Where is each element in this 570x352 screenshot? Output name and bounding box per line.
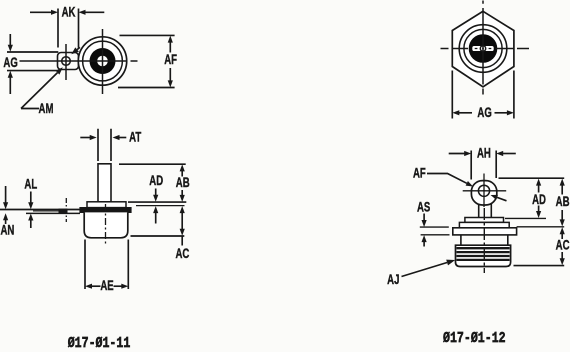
panel line lower (left) [26,212,80,214]
caption 017-01-12 [443,331,506,348]
thread ridges [457,248,510,260]
extension line body bottom right [514,265,565,267]
pointer arrow at ball lower right [491,195,507,201]
svg-text:AF: AF [164,51,177,67]
locknut block on panel [59,209,68,214]
side view threaded stem [98,164,111,202]
dimension AE [85,284,128,289]
panel doubled line segment [33,210,62,212]
svg-text:AE: AE [100,277,113,293]
ball inner circle [478,185,489,196]
svg-text:AT: AT [129,129,142,145]
extension line step A right [505,217,546,219]
vertical centerline of tab hole [65,44,67,80]
extension line ball top right [499,177,565,179]
dimension AB (right view) [560,179,565,227]
dimension AK extension lines [58,9,79,48]
leader AM [21,67,63,108]
hex horizontal centerline [441,48,530,50]
dimension AS extension lines [420,227,450,235]
svg-text:AB: AB [556,193,570,209]
tab hole [62,57,71,66]
switch body outer circle (top view) [78,37,126,85]
panel line upper (left) [0,209,80,211]
extension line flange top right [517,226,565,228]
svg-text:AC: AC [556,237,570,253]
dimension AT arrows [80,135,126,140]
dimension AG arrows [8,34,13,94]
vertical centerline of main circle [102,29,104,94]
extension line stem top right [119,163,186,165]
svg-text:Ø17-Ø1-12: Ø17-Ø1-12 [443,331,506,348]
switch body second circle [83,41,123,81]
dimension AD (left view) [153,189,158,224]
body cup [84,212,128,237]
svg-text:AM: AM [39,100,54,116]
extension line flange top right [136,205,185,207]
dimension AC (right view) [560,227,565,265]
screw head black disc [469,34,498,63]
svg-text:AK: AK [62,4,76,20]
pointer arrow from AK line to tab corner [71,47,80,54]
dimension AF extension lines [118,35,175,87]
hex vertical centerline [482,1,484,95]
ball horizontal centerline [463,190,507,192]
flange (right view) [453,228,517,235]
svg-text:AC: AC [175,245,189,261]
ball vertical centerline [483,174,485,208]
extension line collar top right [128,201,186,203]
dimension AG extension lines [7,52,58,71]
svg-text:AG: AG [3,54,17,70]
dimension AD (right view) [536,179,541,218]
svg-text:AH: AH [477,145,491,161]
nut second circle [464,29,502,67]
dimension AN arrows [3,186,8,224]
dimension AH arrows [449,151,516,156]
svg-text:AG: AG [477,104,491,120]
svg-text:AF: AF [413,165,426,181]
dimension AF arrows [168,36,173,88]
extension line cup bottom right [131,235,185,237]
mounting tab (top view) [58,53,79,70]
svg-text:AS: AS [417,199,430,215]
toggle neck (side view right) [479,201,492,218]
collar step [87,202,126,208]
step A [465,218,504,223]
screwdriver slot [472,46,493,51]
caption 017-01-11 [68,336,131,352]
neck below flange [461,235,508,245]
dimension AB (left view) [180,164,185,202]
dimension AL arrows [28,192,33,229]
leader AJ [402,260,456,277]
flange (dark band) [80,208,131,213]
dimension AS arrows [422,214,427,247]
bushing black annulus [90,48,116,74]
dimension AE extension lines [85,240,128,290]
horizontal centerline through tab and circle [20,60,138,62]
bushing bore (white center) [97,56,108,67]
dimension AG (nut) extension lines [452,71,514,119]
dimension AH extension lines [471,151,496,180]
svg-text:AJ: AJ [387,271,399,287]
threaded body [456,245,511,266]
svg-text:AN: AN [0,221,14,237]
hex nut outline (top view right) [452,11,514,87]
right view vertical centerline [483,208,485,273]
screw axis centerline (side view) [65,198,67,222]
svg-text:AL: AL [24,176,37,192]
svg-text:Ø17-Ø1-11: Ø17-Ø1-11 [68,336,131,352]
dimension AG (nut) [452,110,514,115]
step B [459,222,509,227]
leader AF (right view) [427,174,473,187]
side view vertical centerline [105,204,107,246]
svg-text:AD: AD [149,172,163,188]
slot center circle [480,46,485,51]
svg-text:AD: AD [532,191,546,207]
dimension AT extension lines [98,129,111,161]
svg-text:AB: AB [176,174,190,190]
ball center dot [483,190,485,192]
dimension AC (left view) [180,206,185,245]
nut outer circle [459,25,507,73]
dimension AK arrows [30,10,104,15]
toggle ball [471,181,496,205]
